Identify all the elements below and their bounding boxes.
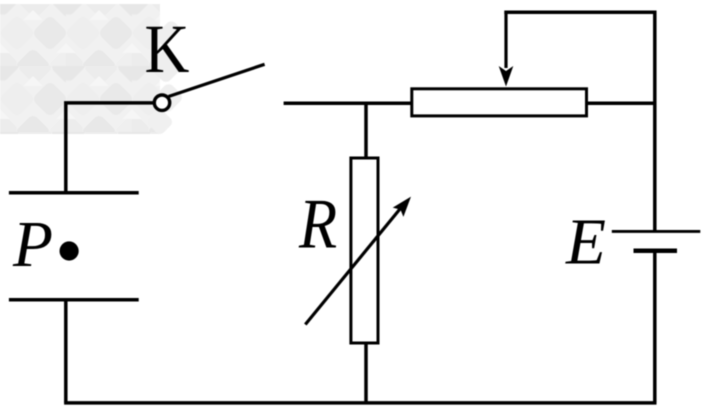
svg-text:P: P (12, 209, 53, 281)
svg-text:E: E (565, 206, 606, 278)
svg-text:R: R (298, 185, 337, 264)
svg-text:K: K (145, 12, 190, 88)
